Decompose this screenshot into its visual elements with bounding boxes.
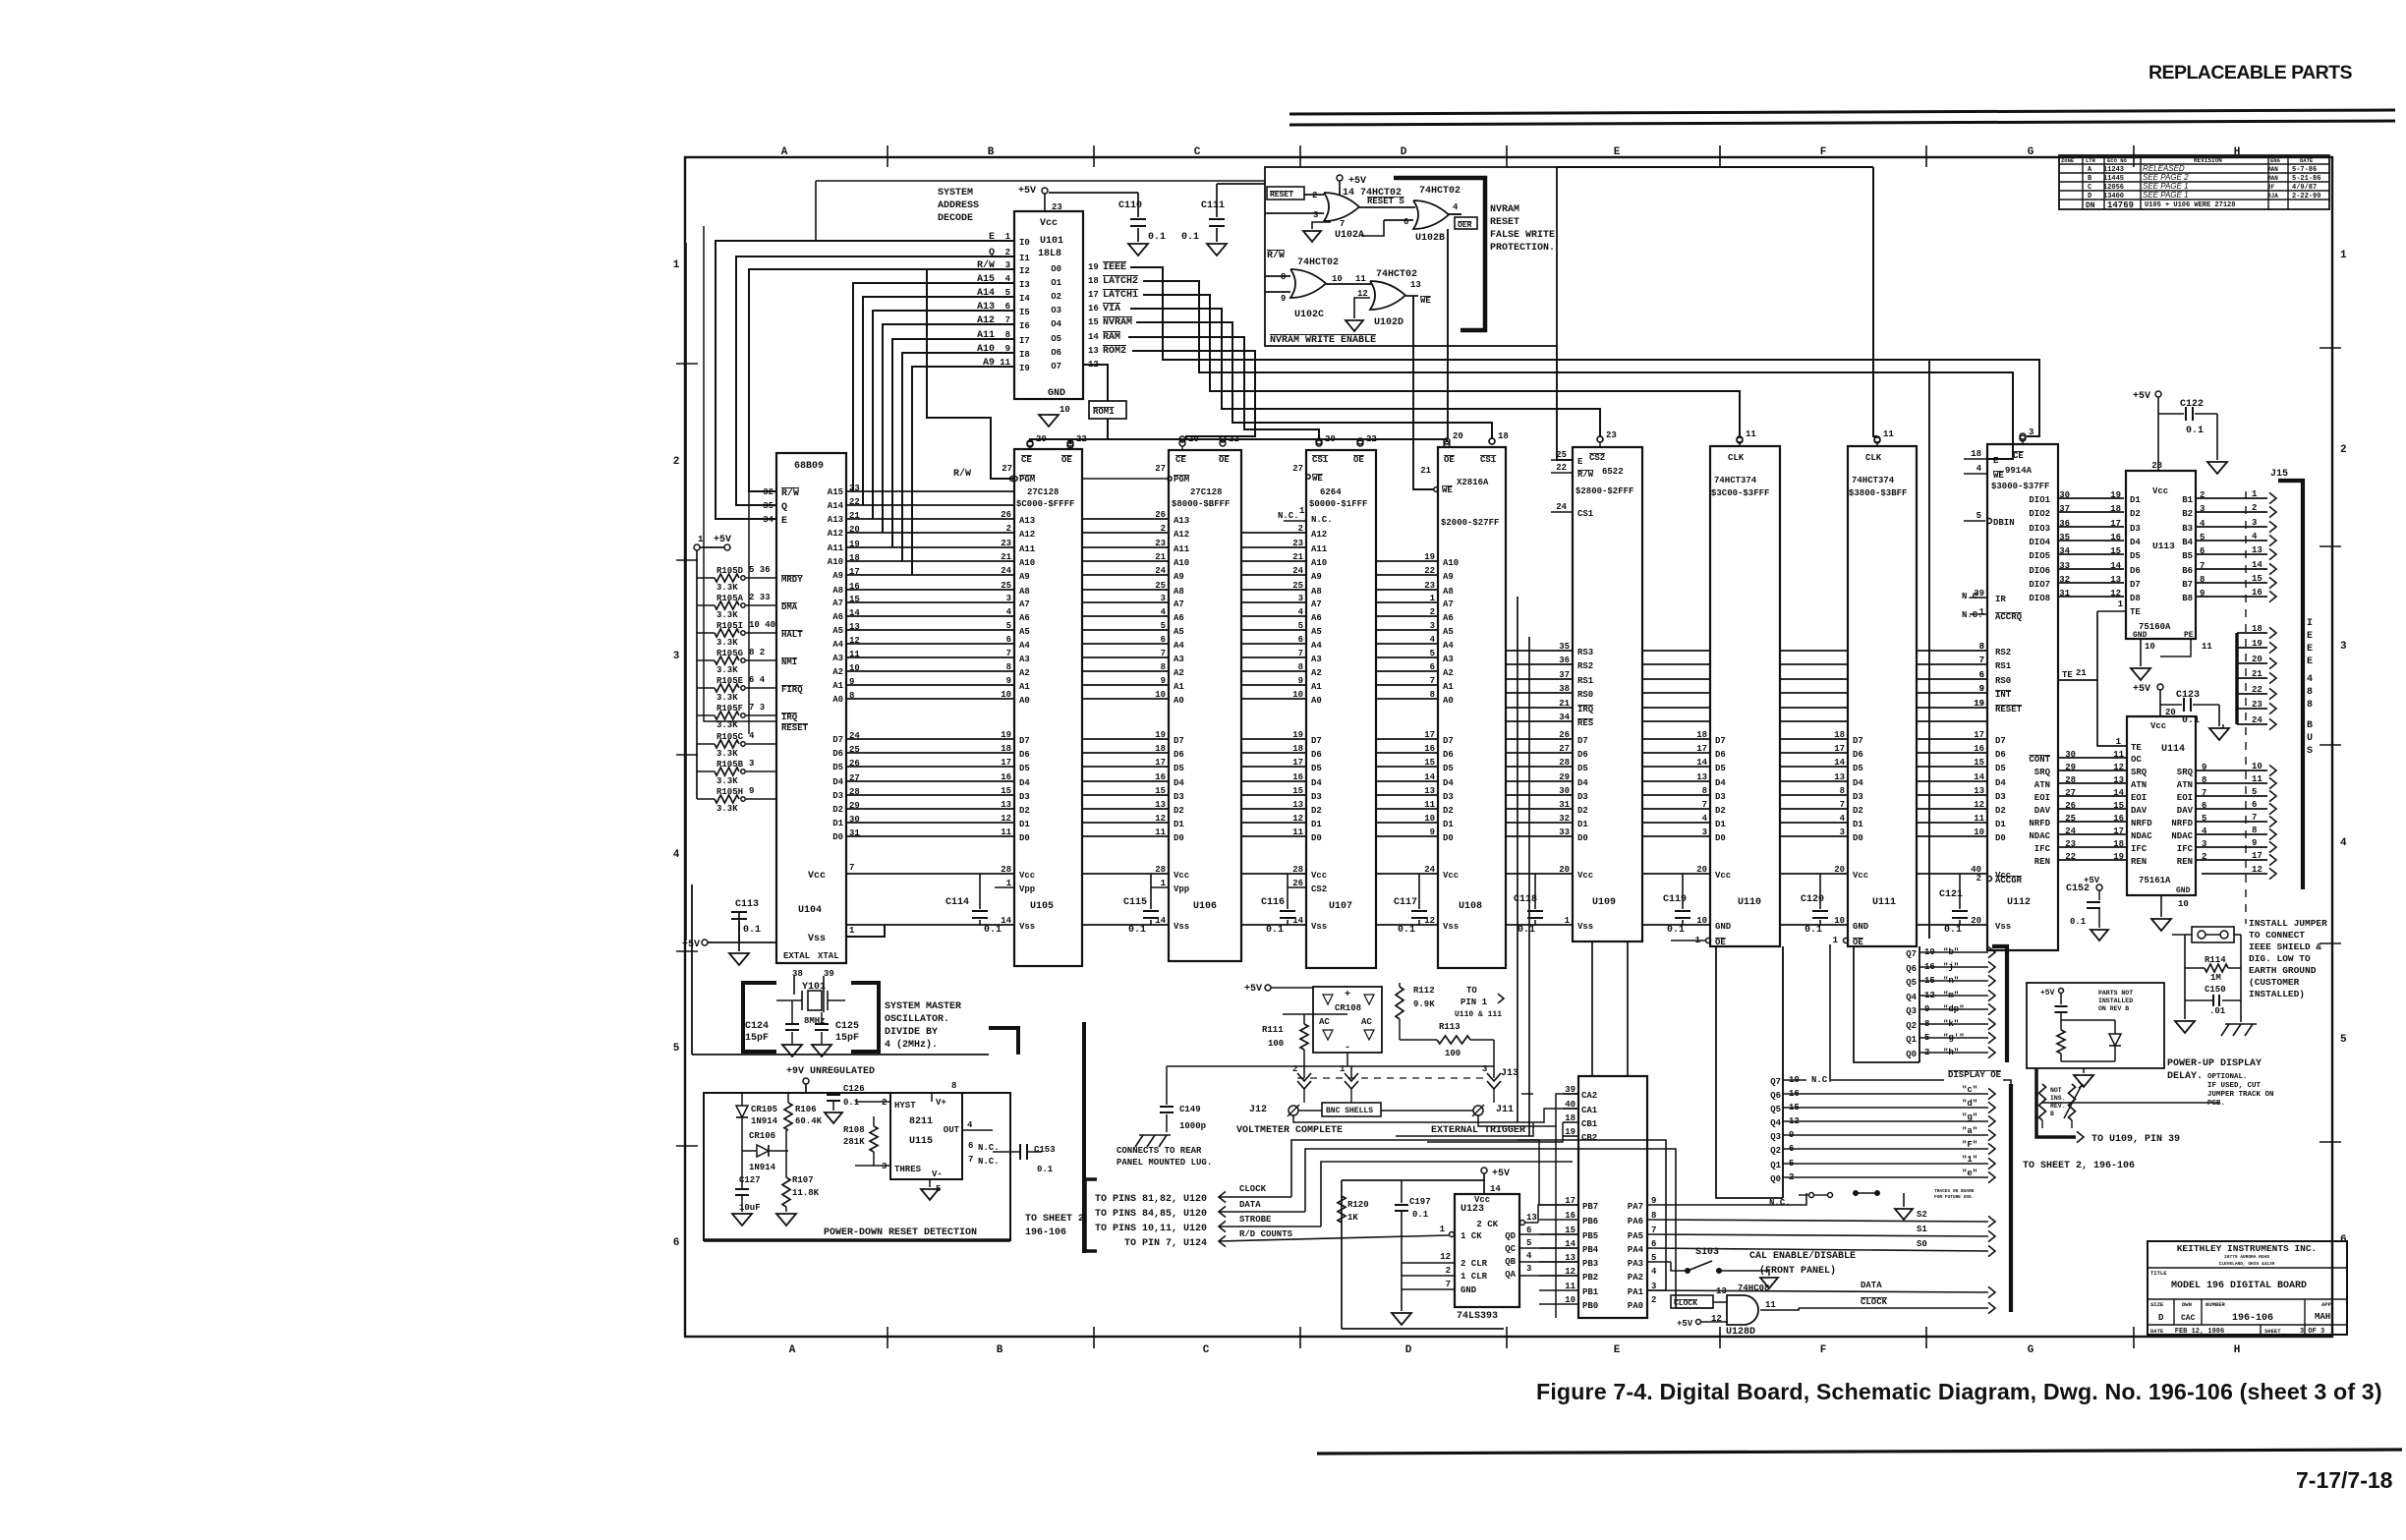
svg-text:D4: D4 bbox=[1019, 778, 1030, 788]
svg-text:33: 33 bbox=[1559, 827, 1570, 837]
svg-text:4: 4 bbox=[749, 731, 755, 741]
svg-text:D2: D2 bbox=[832, 805, 843, 815]
svg-text:A10: A10 bbox=[1443, 558, 1459, 568]
svg-text:EARTH GROUND: EARTH GROUND bbox=[2249, 965, 2317, 976]
data bus U105 to U106 bbox=[1082, 738, 1169, 740]
svg-text:A: A bbox=[789, 1344, 796, 1356]
svg-text:+5V: +5V bbox=[1018, 186, 1036, 197]
svg-text:7: 7 bbox=[1446, 1280, 1451, 1289]
svg-text:MAN: MAN bbox=[2267, 166, 2278, 173]
wire NVRAM select net bbox=[1136, 322, 1492, 438]
svg-text:+5V: +5V bbox=[2133, 684, 2150, 695]
ground U102D bbox=[1354, 298, 1370, 318]
svg-text:A8: A8 bbox=[832, 586, 843, 596]
svg-text:TO PINS 10,11, U120: TO PINS 10,11, U120 bbox=[1095, 1224, 1207, 1234]
svg-text:9: 9 bbox=[2202, 763, 2206, 772]
svg-text:2 CLR: 2 CLR bbox=[1461, 1259, 1488, 1269]
svg-text:J11: J11 bbox=[1496, 1105, 1514, 1115]
svg-text:D4: D4 bbox=[1311, 778, 1322, 788]
svg-text:14: 14 bbox=[1974, 772, 1984, 782]
svg-text:TO PINS 84,85, U120: TO PINS 84,85, U120 bbox=[1095, 1209, 1207, 1220]
svg-text:SEE PAGE 2: SEE PAGE 2 bbox=[2143, 173, 2189, 182]
svg-text:PGM: PGM bbox=[1019, 475, 1035, 485]
svg-text:2: 2 bbox=[673, 456, 680, 468]
svg-text:D: D bbox=[1405, 1344, 1412, 1356]
svg-text:B: B bbox=[2050, 1111, 2054, 1117]
svg-text:-: - bbox=[1345, 1043, 1350, 1054]
wire IEEE select net bbox=[1130, 267, 2039, 436]
svg-text:Vss: Vss bbox=[808, 934, 826, 944]
svg-text:A12: A12 bbox=[1019, 530, 1035, 540]
svg-text:9: 9 bbox=[1161, 676, 1166, 686]
svg-text:D6: D6 bbox=[1174, 750, 1184, 760]
svg-text:DIG. LOW TO: DIG. LOW TO bbox=[2249, 953, 2311, 964]
svg-text:10 40: 10 40 bbox=[749, 620, 775, 630]
ground Y101 right bbox=[812, 1045, 831, 1056]
svg-text:QA: QA bbox=[1505, 1270, 1516, 1280]
svg-text:A5: A5 bbox=[1443, 627, 1454, 637]
svg-text:2-22-90: 2-22-90 bbox=[2292, 193, 2320, 200]
svg-text:+5V: +5V bbox=[2040, 989, 2055, 998]
wire Q net bbox=[736, 257, 1014, 505]
ground U102A bbox=[1312, 222, 1331, 229]
display OE bracket bbox=[1992, 946, 2007, 1062]
svg-text:A1: A1 bbox=[1019, 682, 1030, 692]
svg-text:CLEVELAND, OHIO 44139: CLEVELAND, OHIO 44139 bbox=[2219, 1261, 2275, 1267]
svg-text:RS2: RS2 bbox=[1995, 648, 2011, 657]
svg-text:U123: U123 bbox=[1461, 1204, 1484, 1215]
svg-text:8: 8 bbox=[2202, 775, 2206, 785]
svg-text:D2: D2 bbox=[1311, 806, 1322, 816]
svg-text:A10: A10 bbox=[1311, 558, 1327, 568]
svg-text:2: 2 bbox=[882, 1098, 887, 1108]
svg-text:2: 2 bbox=[2252, 503, 2257, 513]
svg-text:Q4: Q4 bbox=[1770, 1118, 1781, 1128]
svg-text:0.1: 0.1 bbox=[1412, 1210, 1429, 1220]
svg-text:1: 1 bbox=[1979, 607, 1985, 617]
svg-text:24: 24 bbox=[1556, 502, 1567, 512]
svg-text:23: 23 bbox=[2065, 839, 2076, 849]
svg-text:17: 17 bbox=[2113, 827, 2124, 836]
svg-text:23: 23 bbox=[1001, 539, 1011, 548]
svg-text:ECO NO: ECO NO bbox=[2107, 157, 2128, 164]
svg-text:Q4: Q4 bbox=[1906, 993, 1917, 1002]
svg-text:A2: A2 bbox=[1443, 668, 1454, 678]
wire U123 clr stubs bbox=[1402, 1262, 1455, 1264]
display segment stack U111 bbox=[1854, 946, 1919, 1062]
svg-text:D4: D4 bbox=[1174, 778, 1184, 788]
svg-text:14: 14 bbox=[2110, 561, 2121, 571]
svg-text:D6: D6 bbox=[1577, 750, 1588, 760]
svg-text:PA4: PA4 bbox=[1628, 1245, 1644, 1255]
svg-text:12: 12 bbox=[1001, 814, 1011, 824]
svg-text:0.1: 0.1 bbox=[2186, 426, 2204, 436]
svg-text:D6: D6 bbox=[2130, 566, 2141, 576]
svg-text:12: 12 bbox=[1974, 800, 1984, 810]
svg-text:4: 4 bbox=[2202, 827, 2207, 836]
svg-text:13: 13 bbox=[1424, 786, 1435, 796]
svg-text:CLOCK: CLOCK bbox=[1239, 1184, 1267, 1194]
svg-text:0.1: 0.1 bbox=[2070, 917, 2087, 927]
svg-text:+5V: +5V bbox=[1244, 984, 1262, 995]
svg-text:D5: D5 bbox=[1311, 764, 1322, 773]
svg-text:DECODE: DECODE bbox=[938, 213, 973, 224]
svg-text:TO CONNECT: TO CONNECT bbox=[2249, 930, 2305, 941]
svg-text:18: 18 bbox=[1001, 744, 1011, 754]
svg-text:6: 6 bbox=[2200, 546, 2205, 556]
wire top bus bbox=[816, 180, 1265, 182]
svg-text:1: 1 bbox=[2116, 737, 2122, 747]
svg-text:PA0: PA0 bbox=[1628, 1301, 1643, 1311]
svg-text:INS.: INS. bbox=[2050, 1095, 2066, 1102]
wire TE 21 bbox=[2058, 679, 2097, 681]
svg-text:196-106: 196-106 bbox=[2232, 1313, 2273, 1324]
svg-text:U108: U108 bbox=[1459, 901, 1482, 912]
wire U123 top rail bbox=[1342, 1179, 1485, 1181]
svg-text:D6: D6 bbox=[1311, 750, 1322, 760]
svg-text:10: 10 bbox=[2252, 762, 2263, 771]
svg-text:ON REV B: ON REV B bbox=[2098, 1005, 2129, 1012]
svg-text:17: 17 bbox=[1292, 758, 1303, 768]
svg-text:+5V: +5V bbox=[2133, 391, 2150, 402]
svg-text:13: 13 bbox=[1716, 1286, 1727, 1296]
svg-text:10: 10 bbox=[1001, 690, 1011, 700]
svg-text:7: 7 bbox=[849, 863, 854, 873]
svg-text:+5V: +5V bbox=[682, 940, 700, 950]
svg-text:A3: A3 bbox=[1174, 655, 1184, 664]
svg-text:5: 5 bbox=[2252, 787, 2257, 797]
svg-text:A10: A10 bbox=[1174, 558, 1189, 568]
svg-text:CLOCK: CLOCK bbox=[1674, 1299, 1697, 1308]
svg-text:D4: D4 bbox=[1443, 778, 1454, 788]
svg-text:U110: U110 bbox=[1738, 897, 1761, 908]
svg-text:D0: D0 bbox=[1019, 833, 1030, 843]
svg-text:7: 7 bbox=[1840, 800, 1845, 810]
svg-text:20: 20 bbox=[1971, 916, 1981, 926]
svg-text:1 CLR: 1 CLR bbox=[1461, 1272, 1488, 1282]
svg-text:13: 13 bbox=[1088, 346, 1099, 356]
svg-text:Q6: Q6 bbox=[1906, 964, 1917, 974]
wire WE net bbox=[1413, 296, 1434, 489]
svg-text:10: 10 bbox=[2178, 899, 2189, 909]
svg-text:Vss: Vss bbox=[1443, 922, 1459, 932]
svg-text:KEITHLEY INSTRUMENTS INC.: KEITHLEY INSTRUMENTS INC. bbox=[2177, 1243, 2318, 1254]
svg-text:B6: B6 bbox=[2182, 566, 2193, 576]
svg-text:SYSTEM: SYSTEM bbox=[938, 188, 973, 199]
svg-text:C: C bbox=[1203, 1344, 1210, 1356]
svg-text:C111: C111 bbox=[1201, 200, 1225, 211]
ground J15 bbox=[2222, 724, 2224, 728]
svg-text:12056: 12056 bbox=[2103, 184, 2124, 192]
svg-text:21: 21 bbox=[2252, 669, 2263, 679]
svg-text:18: 18 bbox=[1292, 744, 1303, 754]
svg-text:Q5: Q5 bbox=[1906, 978, 1917, 988]
display bracket lower bbox=[2009, 1084, 2013, 1312]
svg-text:4: 4 bbox=[1840, 814, 1846, 824]
svg-text:0.1: 0.1 bbox=[843, 1098, 860, 1108]
svg-text:D6: D6 bbox=[1853, 750, 1863, 760]
svg-text:15: 15 bbox=[2110, 546, 2121, 556]
svg-text:17: 17 bbox=[1088, 290, 1099, 300]
wire A12 tap bbox=[883, 324, 1014, 533]
svg-text:PB1: PB1 bbox=[1582, 1287, 1599, 1297]
svg-text:OSCILLATOR.: OSCILLATOR. bbox=[885, 1014, 949, 1025]
svg-text:REN: REN bbox=[2131, 857, 2147, 867]
svg-text:16: 16 bbox=[2113, 814, 2124, 824]
bracket oscillator right bbox=[851, 983, 879, 1052]
ground U113 bbox=[2140, 639, 2142, 666]
svg-text:D2: D2 bbox=[1577, 806, 1588, 816]
IC U113 75160A bbox=[2126, 471, 2196, 639]
svg-text:28: 28 bbox=[2065, 775, 2076, 785]
svg-text:A13: A13 bbox=[1174, 516, 1189, 526]
IC U112 9914A bbox=[1987, 444, 2058, 950]
svg-text:4: 4 bbox=[1453, 202, 1459, 212]
svg-text:DAV: DAV bbox=[2131, 806, 2148, 816]
svg-text:16: 16 bbox=[1974, 744, 1984, 754]
data bus U104 to U105 bbox=[846, 738, 1014, 740]
svg-text:D2: D2 bbox=[1019, 806, 1030, 816]
svg-text:A11: A11 bbox=[828, 543, 844, 553]
svg-text:7: 7 bbox=[968, 1155, 973, 1165]
svg-text:CLK: CLK bbox=[1728, 453, 1745, 463]
svg-text:Q3: Q3 bbox=[1770, 1132, 1781, 1142]
svg-text:D1: D1 bbox=[832, 819, 843, 828]
svg-text:20: 20 bbox=[1188, 434, 1199, 444]
svg-text:2: 2 bbox=[2200, 490, 2205, 500]
svg-text:N.C.: N.C. bbox=[978, 1157, 1000, 1167]
svg-text:A9: A9 bbox=[1311, 572, 1322, 582]
svg-text:D4: D4 bbox=[1995, 778, 2006, 788]
or-gate U102D bbox=[1370, 281, 1405, 310]
svg-text:5: 5 bbox=[1006, 621, 1011, 631]
svg-text:Vcc: Vcc bbox=[1443, 871, 1459, 881]
svg-text:Q2: Q2 bbox=[1906, 1021, 1917, 1031]
svg-text:OE: OE bbox=[1853, 938, 1863, 947]
svg-text:2: 2 bbox=[1312, 191, 1317, 200]
svg-text:15: 15 bbox=[1424, 758, 1435, 768]
svg-text:CONT: CONT bbox=[2029, 755, 2050, 765]
svg-text:20: 20 bbox=[1453, 431, 1463, 441]
svg-text:D7: D7 bbox=[1715, 736, 1726, 746]
svg-text:27: 27 bbox=[1155, 464, 1166, 474]
svg-text:PARTS NOT: PARTS NOT bbox=[2098, 990, 2133, 997]
svg-text:3: 3 bbox=[1430, 621, 1435, 631]
power +5V gates bbox=[1337, 175, 1343, 181]
svg-text:LATCH1: LATCH1 bbox=[1103, 290, 1138, 301]
svg-text:10: 10 bbox=[2145, 642, 2155, 652]
svg-text:1N914: 1N914 bbox=[749, 1163, 776, 1172]
svg-text:EOI: EOI bbox=[2131, 793, 2147, 803]
svg-text:A0: A0 bbox=[832, 695, 843, 705]
svg-text:SHEET: SHEET bbox=[2264, 1328, 2281, 1335]
svg-text:0.1: 0.1 bbox=[1398, 925, 1415, 936]
svg-text:18: 18 bbox=[2113, 839, 2124, 849]
svg-text:9: 9 bbox=[1006, 676, 1011, 686]
svg-text:D3: D3 bbox=[1443, 792, 1454, 802]
svg-text:O6: O6 bbox=[1051, 348, 1061, 358]
svg-text:CONNECTS TO REAR: CONNECTS TO REAR bbox=[1117, 1146, 1202, 1156]
svg-text:+5V: +5V bbox=[1492, 1169, 1510, 1179]
svg-text:DISPLAY OE: DISPLAY OE bbox=[1948, 1070, 2002, 1080]
svg-text:AC: AC bbox=[1361, 1017, 1372, 1027]
svg-text:27: 27 bbox=[1292, 464, 1303, 474]
svg-text:3: 3 bbox=[673, 651, 680, 662]
svg-text:E: E bbox=[1993, 456, 1999, 466]
svg-text:23: 23 bbox=[1052, 202, 1062, 212]
svg-text:A10: A10 bbox=[828, 557, 843, 567]
svg-text:5: 5 bbox=[1526, 1238, 1531, 1248]
svg-text:9: 9 bbox=[1298, 676, 1303, 686]
svg-text:74LS393: 74LS393 bbox=[1457, 1311, 1498, 1322]
svg-text:D0: D0 bbox=[1577, 833, 1588, 843]
svg-text:Vcc: Vcc bbox=[808, 871, 826, 882]
or-gate U102A bbox=[1324, 193, 1359, 221]
svg-text:D0: D0 bbox=[1853, 833, 1863, 843]
svg-text:20: 20 bbox=[1036, 434, 1047, 444]
svg-text:11: 11 bbox=[1746, 429, 1756, 439]
wire CLOCK to pins bbox=[1219, 1191, 1226, 1202]
IC U108 X2816A bbox=[1438, 447, 1506, 968]
wire external trigger net bbox=[1478, 1094, 1578, 1126]
svg-text:7: 7 bbox=[2200, 561, 2205, 571]
svg-text:16: 16 bbox=[2110, 533, 2121, 542]
svg-text:C150: C150 bbox=[2205, 985, 2226, 995]
svg-text:27: 27 bbox=[2065, 788, 2076, 798]
svg-text:1: 1 bbox=[2340, 250, 2347, 261]
svg-text:A4: A4 bbox=[832, 640, 843, 650]
svg-text:RESET: RESET bbox=[1270, 191, 1293, 200]
svg-text:27: 27 bbox=[1002, 464, 1012, 474]
svg-text:22: 22 bbox=[1076, 434, 1087, 444]
resistor R112 bbox=[1396, 987, 1403, 1019]
svg-text:4: 4 bbox=[1430, 635, 1436, 645]
svg-text:S0: S0 bbox=[1917, 1239, 1927, 1249]
svg-text:U109: U109 bbox=[1592, 897, 1616, 908]
svg-text:21: 21 bbox=[1292, 552, 1303, 562]
svg-text:3.3K: 3.3K bbox=[716, 749, 738, 759]
address bus U107 to U108 bbox=[1376, 560, 1438, 562]
svg-text:IRQ: IRQ bbox=[781, 713, 798, 722]
wire LATCH1 select net bbox=[1143, 295, 1740, 436]
svg-text:G: G bbox=[2028, 1344, 2034, 1356]
svg-text:A3: A3 bbox=[1019, 655, 1030, 664]
svg-text:NRFD: NRFD bbox=[2171, 819, 2193, 828]
svg-text:GND: GND bbox=[1461, 1285, 1477, 1295]
svg-text:3.3K: 3.3K bbox=[716, 693, 738, 703]
svg-text:1: 1 bbox=[1430, 594, 1436, 603]
svg-text:5: 5 bbox=[2200, 533, 2205, 542]
svg-text:U101: U101 bbox=[1040, 236, 1063, 247]
svg-text:A13: A13 bbox=[828, 515, 843, 525]
svg-text:D: D bbox=[1401, 146, 1407, 158]
svg-text:PCB.: PCB. bbox=[2207, 1100, 2225, 1108]
data bus U107 to U108 bbox=[1376, 738, 1438, 740]
svg-text:74HCT374: 74HCT374 bbox=[1714, 476, 1757, 485]
svg-text:A7: A7 bbox=[1174, 599, 1184, 609]
svg-text:D5: D5 bbox=[1853, 764, 1863, 773]
svg-text:Vcc: Vcc bbox=[1715, 871, 1731, 881]
svg-text:9: 9 bbox=[749, 786, 754, 796]
svg-text:A7: A7 bbox=[832, 599, 843, 608]
svg-text:4: 4 bbox=[1161, 607, 1167, 617]
svg-text:14: 14 bbox=[1696, 758, 1707, 768]
svg-text:6: 6 bbox=[1403, 217, 1408, 227]
svg-text:R120: R120 bbox=[1347, 1200, 1369, 1210]
svg-text:A1: A1 bbox=[1174, 682, 1184, 692]
svg-text:8: 8 bbox=[2307, 700, 2313, 711]
svg-text:PA6: PA6 bbox=[1628, 1217, 1643, 1226]
svg-text:E: E bbox=[2307, 631, 2313, 642]
svg-text:PA1: PA1 bbox=[1628, 1287, 1644, 1297]
svg-text:RESET: RESET bbox=[1490, 217, 1519, 228]
wire A13 tap bbox=[873, 311, 1014, 519]
svg-text:OUT: OUT bbox=[944, 1125, 960, 1135]
svg-text:8 2: 8 2 bbox=[749, 648, 765, 657]
svg-text:QB: QB bbox=[1505, 1257, 1516, 1267]
svg-text:11243: 11243 bbox=[2103, 166, 2124, 174]
display box right verticals bbox=[1782, 946, 1784, 1198]
svg-text:11: 11 bbox=[1883, 429, 1894, 439]
svg-text:REPLACEABLE PARTS: REPLACEABLE PARTS bbox=[2148, 62, 2353, 84]
svg-text:+5V: +5V bbox=[714, 535, 731, 545]
crystal Y101 bbox=[793, 976, 795, 995]
svg-text:5: 5 bbox=[1430, 649, 1435, 658]
capacitor C153 bbox=[1019, 1144, 1021, 1160]
svg-text:SRQ: SRQ bbox=[2034, 768, 2051, 777]
trimmer rev b bbox=[2069, 1084, 2076, 1120]
svg-text:A6: A6 bbox=[1174, 613, 1184, 623]
svg-text:ATN: ATN bbox=[2177, 780, 2193, 790]
svg-text:14: 14 bbox=[1088, 332, 1099, 342]
svg-text:0.1: 0.1 bbox=[1804, 925, 1822, 936]
svg-text:PA7: PA7 bbox=[1628, 1202, 1643, 1212]
wire S1 net bbox=[1647, 1234, 1988, 1236]
svg-text:26: 26 bbox=[1559, 730, 1570, 740]
svg-text:D0: D0 bbox=[832, 832, 843, 842]
svg-text:TE: TE bbox=[2131, 743, 2142, 753]
svg-text:5: 5 bbox=[1161, 621, 1166, 631]
svg-text:$3800-$3BFF: $3800-$3BFF bbox=[1849, 488, 1907, 498]
svg-text:11: 11 bbox=[2113, 750, 2124, 760]
svg-text:1: 1 bbox=[1440, 1225, 1446, 1234]
svg-text:NVRAM: NVRAM bbox=[1103, 317, 1132, 328]
svg-text:A2: A2 bbox=[1174, 668, 1184, 678]
IC U105 27C128 bbox=[1014, 449, 1082, 966]
svg-text:D1: D1 bbox=[1311, 820, 1322, 829]
svg-text:J13: J13 bbox=[1501, 1068, 1518, 1079]
svg-text:Q0: Q0 bbox=[1770, 1174, 1781, 1184]
svg-text:Q2: Q2 bbox=[1770, 1146, 1781, 1156]
svg-text:U105 + U106 WERE 27128: U105 + U106 WERE 27128 bbox=[2145, 201, 2235, 209]
svg-text:IEEE SHIELD &: IEEE SHIELD & bbox=[2249, 941, 2321, 952]
svg-text:ROM1: ROM1 bbox=[1093, 407, 1115, 417]
svg-text:R/D COUNTS: R/D COUNTS bbox=[1239, 1229, 1293, 1239]
svg-text:QC: QC bbox=[1505, 1244, 1516, 1254]
svg-text:TO SHEET 2: TO SHEET 2 bbox=[1025, 1214, 1084, 1225]
svg-text:0.1: 0.1 bbox=[1148, 232, 1166, 243]
svg-text:15: 15 bbox=[1088, 317, 1099, 327]
svg-text:ENG: ENG bbox=[2270, 157, 2281, 164]
svg-text:C153: C153 bbox=[1034, 1145, 1056, 1155]
svg-text:R114: R114 bbox=[2205, 955, 2226, 965]
svg-text:D7: D7 bbox=[1995, 736, 2006, 746]
svg-text:15: 15 bbox=[2113, 801, 2124, 811]
svg-text:D7: D7 bbox=[1311, 736, 1322, 746]
svg-text:(FRONT PANEL): (FRONT PANEL) bbox=[1759, 1265, 1836, 1277]
svg-text:1: 1 bbox=[1833, 936, 1839, 945]
svg-text:NDAC: NDAC bbox=[2171, 831, 2193, 841]
